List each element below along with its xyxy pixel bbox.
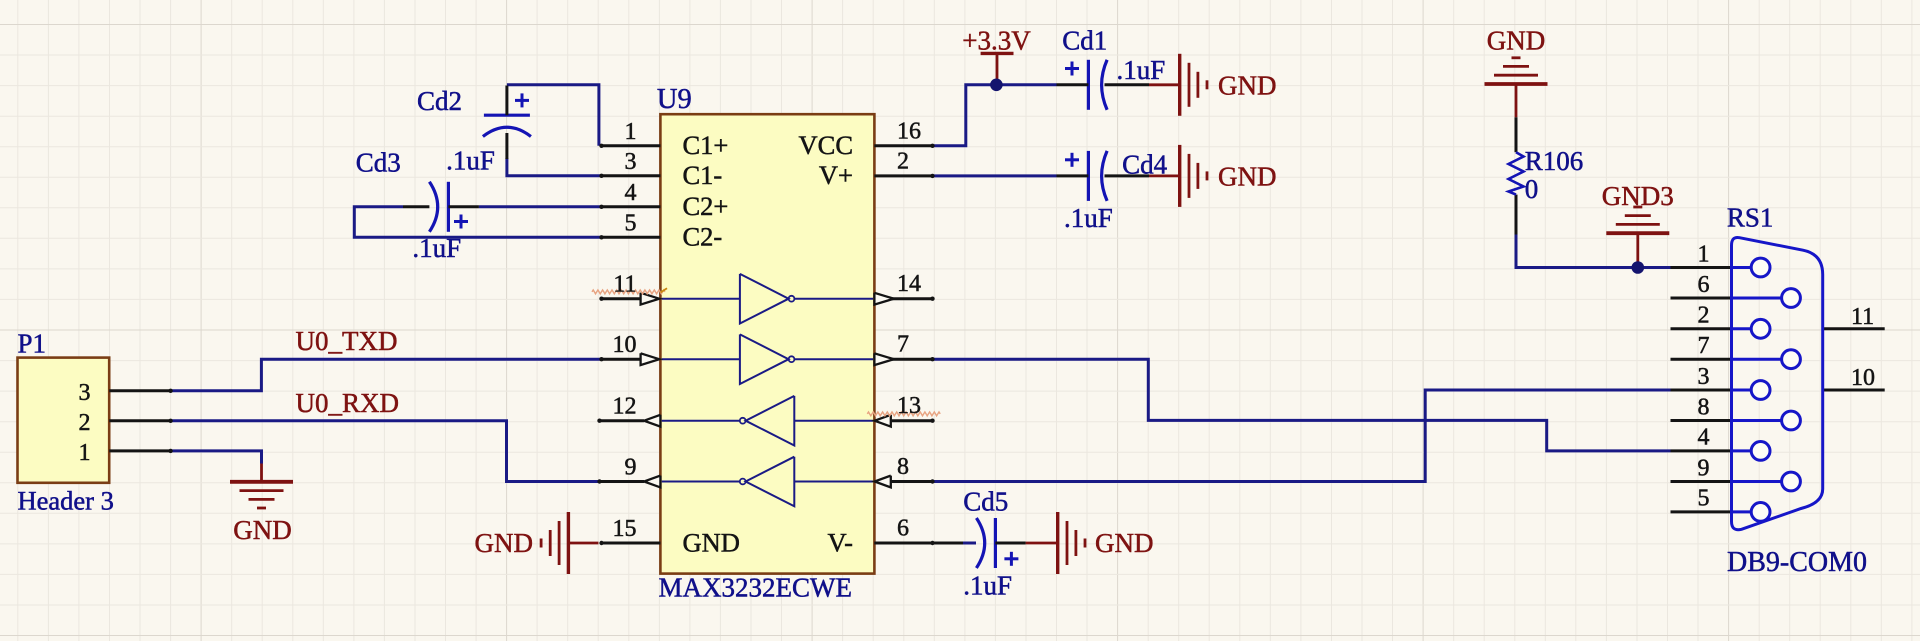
svg-text:8: 8 bbox=[1698, 394, 1710, 420]
svg-text:3: 3 bbox=[625, 149, 637, 175]
svg-text:13: 13 bbox=[897, 393, 921, 419]
svg-text:0: 0 bbox=[1525, 174, 1539, 204]
svg-text:6: 6 bbox=[1698, 272, 1710, 298]
svg-text:DB9-COM0: DB9-COM0 bbox=[1727, 547, 1867, 578]
svg-text:7: 7 bbox=[1698, 333, 1710, 359]
svg-text:V+: V+ bbox=[819, 160, 853, 190]
svg-text:2: 2 bbox=[1698, 303, 1710, 329]
svg-text:12: 12 bbox=[613, 394, 637, 420]
svg-text:4: 4 bbox=[625, 180, 637, 206]
svg-text:+3.3V: +3.3V bbox=[962, 25, 1031, 55]
svg-text:GND: GND bbox=[1218, 70, 1277, 100]
svg-text:P1: P1 bbox=[18, 328, 47, 358]
svg-text:GND: GND bbox=[683, 527, 740, 557]
svg-text:10: 10 bbox=[1851, 365, 1875, 391]
svg-text:GND: GND bbox=[475, 528, 534, 558]
svg-text:3: 3 bbox=[79, 380, 91, 406]
svg-text:Cd3: Cd3 bbox=[356, 147, 401, 177]
svg-text:VCC: VCC bbox=[799, 130, 854, 160]
svg-text:4: 4 bbox=[1698, 425, 1710, 451]
svg-text:.1uF: .1uF bbox=[1064, 203, 1113, 233]
svg-text:1: 1 bbox=[625, 119, 637, 145]
svg-text:U0_TXD: U0_TXD bbox=[296, 326, 398, 356]
svg-text:14: 14 bbox=[897, 271, 921, 297]
svg-text:Cd1: Cd1 bbox=[1062, 26, 1107, 56]
svg-text:5: 5 bbox=[625, 210, 637, 236]
svg-text:6: 6 bbox=[897, 516, 909, 542]
svg-text:8: 8 bbox=[897, 454, 909, 480]
svg-text:15: 15 bbox=[613, 516, 637, 542]
svg-text:11: 11 bbox=[613, 272, 636, 298]
svg-text:.1uF: .1uF bbox=[963, 571, 1012, 601]
svg-text:2: 2 bbox=[79, 410, 91, 436]
svg-text:Cd4: Cd4 bbox=[1122, 150, 1168, 180]
svg-text:16: 16 bbox=[897, 118, 921, 144]
svg-text:GND3: GND3 bbox=[1602, 181, 1674, 211]
svg-text:Header 3: Header 3 bbox=[18, 486, 114, 516]
svg-text:GND: GND bbox=[1218, 161, 1277, 191]
svg-text:10: 10 bbox=[613, 332, 637, 358]
svg-text:U0_RXD: U0_RXD bbox=[296, 388, 400, 418]
svg-text:9: 9 bbox=[625, 455, 637, 481]
svg-text:C1+: C1+ bbox=[683, 130, 729, 160]
svg-text:GND: GND bbox=[233, 515, 292, 545]
svg-text:MAX3232ECWE: MAX3232ECWE bbox=[659, 573, 852, 603]
svg-text:R106: R106 bbox=[1525, 146, 1584, 176]
svg-text:7: 7 bbox=[897, 332, 909, 358]
svg-text:9: 9 bbox=[1698, 455, 1710, 481]
svg-text:1: 1 bbox=[79, 440, 91, 466]
svg-text:U9: U9 bbox=[657, 84, 692, 115]
svg-text:V-: V- bbox=[827, 527, 853, 557]
svg-text:RS1: RS1 bbox=[1727, 203, 1774, 233]
svg-text:5: 5 bbox=[1698, 486, 1710, 512]
svg-text:3: 3 bbox=[1698, 364, 1710, 390]
svg-text:Cd2: Cd2 bbox=[417, 86, 462, 116]
svg-text:GND: GND bbox=[1487, 26, 1546, 56]
svg-text:GND: GND bbox=[1095, 528, 1154, 558]
svg-text:1: 1 bbox=[1698, 241, 1710, 267]
svg-text:C2-: C2- bbox=[683, 222, 723, 252]
svg-text:C1-: C1- bbox=[683, 160, 723, 190]
svg-text:11: 11 bbox=[1851, 304, 1874, 330]
svg-text:2: 2 bbox=[897, 148, 909, 174]
svg-text:.1uF: .1uF bbox=[1117, 55, 1166, 85]
svg-text:.1uF: .1uF bbox=[412, 233, 461, 263]
svg-text:.1uF: .1uF bbox=[446, 146, 495, 176]
svg-text:C2+: C2+ bbox=[683, 191, 729, 221]
svg-text:Cd5: Cd5 bbox=[963, 487, 1008, 517]
